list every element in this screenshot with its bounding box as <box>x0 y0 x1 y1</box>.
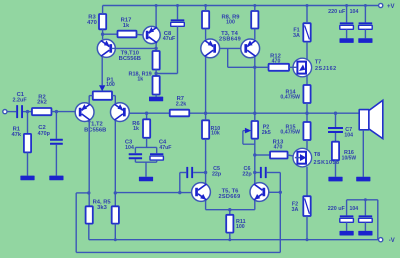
resistor R6 <box>132 119 150 138</box>
transistor T1 <box>75 103 94 122</box>
svg-text:104: 104 <box>344 133 353 139</box>
resistor R12 <box>269 53 290 70</box>
wire C2 to ground <box>55 145 57 176</box>
wire R8 to T3 emitter <box>205 29 207 40</box>
wire rail to R10 <box>205 113 207 120</box>
resistor R10 <box>202 120 220 139</box>
wire C5 to T5 collector line <box>193 172 205 174</box>
resistor R19 <box>153 76 160 95</box>
svg-text:0,47/5W: 0,47/5W <box>280 94 300 100</box>
wire C3 C4 rejoin to ground <box>135 159 156 177</box>
resistor R17 <box>118 18 137 38</box>
junction T6 base loop <box>279 191 282 194</box>
resistor R5 <box>112 206 119 223</box>
wire C8 bottom to R18 R19 junction <box>156 26 177 73</box>
junction C7 tap <box>334 112 337 115</box>
wire output rail (T2 base to speaker) <box>129 112 359 114</box>
svg-text:470: 470 <box>274 145 283 151</box>
wire R9 to T4 emitter <box>254 29 256 40</box>
capacitor C11 220uF bottom <box>328 206 354 222</box>
wire T6 emitter down <box>254 200 256 209</box>
wire C12 to ground <box>364 222 366 231</box>
wire R13 to T8 gate <box>288 154 294 157</box>
wire to R17 <box>103 33 118 35</box>
junction T3 collector output rail <box>204 112 207 115</box>
capacitor C12 104 bottom <box>349 206 372 222</box>
wire R8 top to rail <box>204 4 207 11</box>
wire down to C2 <box>55 112 57 139</box>
capacitor C8 <box>163 19 185 42</box>
capacitor C4 <box>150 139 171 160</box>
wire C6 left to T6 collector line <box>255 172 260 174</box>
wire rail to F1 <box>306 4 309 23</box>
wire rail to P2 <box>254 113 256 121</box>
wire R16 to ground <box>335 160 337 177</box>
svg-text:-V: -V <box>389 238 395 244</box>
wire +V supply rail <box>103 5 379 7</box>
ground under C12 <box>358 231 372 236</box>
resistor R15 <box>280 122 310 140</box>
junction R1 tap <box>26 110 29 113</box>
wire R6 lead <box>146 113 148 119</box>
wire to R13 <box>255 154 270 156</box>
ground under speaker <box>356 177 370 182</box>
wire emitters join <box>206 209 255 211</box>
transistor T7 mosfet <box>293 58 312 77</box>
wire R5 to -V rail <box>114 224 117 242</box>
wire base tap to R12 node <box>228 48 255 67</box>
wire R3 to T9 emitter <box>102 29 104 39</box>
label T1 T2 <box>84 122 106 134</box>
capacitor C10 104 top <box>350 9 373 29</box>
wire -V supply rail <box>89 224 379 240</box>
svg-text:104: 104 <box>349 206 358 212</box>
label R4 R5 <box>93 200 112 211</box>
resistor R9 <box>251 11 258 29</box>
svg-text:104: 104 <box>125 145 134 151</box>
wire T6 base to loop <box>269 191 281 193</box>
wire R6 to C3 C4 split <box>135 138 156 148</box>
label T8 <box>314 152 340 166</box>
wire input to C1 <box>7 111 16 113</box>
svg-text:10/5W: 10/5W <box>342 156 357 162</box>
junction T2 collector to driver wire <box>114 191 117 194</box>
wire T4 collector down <box>254 57 256 113</box>
junction R17 tap <box>101 33 104 36</box>
svg-text:3k3: 3k3 <box>97 205 107 211</box>
wire C12 top lead <box>364 198 367 215</box>
label R18 R19 <box>128 71 151 82</box>
capacitor C5 <box>186 166 222 178</box>
wire -V to bottom caps <box>347 200 378 240</box>
wire R17 to T10 base <box>137 33 144 36</box>
wire P1 right lead to T2 emitter <box>112 96 115 104</box>
wire C1 to R2 <box>23 111 32 113</box>
svg-text:100: 100 <box>236 224 245 230</box>
wire R11 to -V rail <box>228 233 231 242</box>
transistor T2 <box>111 103 130 122</box>
wire to C7 <box>335 113 337 127</box>
wire C3 branch <box>134 147 136 153</box>
wire C10 to ground <box>364 29 366 38</box>
label T9 T10 <box>119 50 141 62</box>
svg-text:22p: 22p <box>242 171 252 177</box>
svg-text:22p: 22p <box>212 171 222 177</box>
capacitor C3 <box>125 139 142 159</box>
wire C7 to R16 <box>335 133 337 142</box>
svg-text:BC556B: BC556B <box>84 127 106 133</box>
junction C5 tap <box>178 191 181 194</box>
ground under C9 <box>340 38 354 43</box>
wire R15 to T8 <box>306 140 308 149</box>
svg-text:+V: +V <box>387 4 395 10</box>
resistor R4 <box>86 206 93 223</box>
wire to R11 <box>229 210 231 215</box>
wire down to R1 <box>27 112 29 134</box>
svg-text:2k5: 2k5 <box>262 130 271 136</box>
wire T1 collector down to R4 <box>88 121 90 207</box>
ground under R16 <box>328 177 342 182</box>
transistor T6 <box>250 183 269 202</box>
node input terminal <box>3 110 7 114</box>
resistor R16 <box>332 142 357 162</box>
resistor R1 <box>11 127 31 153</box>
svg-text:3A: 3A <box>292 207 299 213</box>
svg-text:0,47/5W: 0,47/5W <box>280 129 300 135</box>
wire bottom loop to T6 base column <box>76 173 280 253</box>
svg-text:100: 100 <box>226 20 235 26</box>
svg-text:1k: 1k <box>133 126 139 132</box>
fuse F1 <box>293 23 311 41</box>
wire F1 to T7 <box>306 42 308 60</box>
junction R12 tap <box>253 66 256 69</box>
wire C11 to ground <box>346 222 348 231</box>
svg-text:2SJ162: 2SJ162 <box>315 66 337 72</box>
capacitor C9 220uF top <box>328 9 353 29</box>
ground under C10 <box>358 38 372 43</box>
wire T2 collector down to R5 <box>114 121 116 207</box>
wire P1 left lead to T1 emitter <box>89 96 93 104</box>
node -V terminal <box>379 238 395 245</box>
label T3 T4 <box>219 31 241 43</box>
svg-text:10k: 10k <box>211 131 220 137</box>
wire R3 top to rail <box>102 6 104 15</box>
transistor T3 <box>201 39 220 58</box>
wire R14 to output rail <box>306 103 308 113</box>
ground under C3 C4 <box>139 177 153 182</box>
capacitor C6 <box>242 166 266 178</box>
wire T7 source to R14 <box>306 76 308 85</box>
resistor R3 <box>87 14 106 29</box>
wire T3 base to T4 base <box>220 47 241 49</box>
resistor R8 <box>202 11 209 29</box>
label T5 T6 <box>218 188 240 199</box>
svg-text:100: 100 <box>106 82 115 88</box>
wire output rail to R15 <box>306 113 308 122</box>
svg-text:3A: 3A <box>293 33 300 39</box>
transistor T9 <box>97 39 115 57</box>
wire T2 base to R6 node <box>129 112 146 114</box>
svg-text:47k: 47k <box>11 132 21 138</box>
svg-text:1k: 1k <box>137 76 143 82</box>
wire jog to bottom loop <box>76 193 89 253</box>
wire T3 collector to output rail <box>205 57 207 113</box>
wire T10 collector to R18 <box>155 43 157 51</box>
transistor T8 mosfet <box>293 148 312 167</box>
wire speaker to ground <box>362 130 364 177</box>
capacitor C7 <box>328 127 353 139</box>
svg-text:470p: 470p <box>38 131 51 137</box>
junction T9 base tie <box>154 47 157 50</box>
svg-text:1k: 1k <box>123 23 130 29</box>
svg-text:470: 470 <box>87 20 97 26</box>
label T7 <box>315 59 337 72</box>
resistor R11 <box>226 215 245 233</box>
transistor T10 <box>143 26 160 43</box>
wire P2 to T6 collector <box>254 139 256 184</box>
potentiometer P1 <box>93 77 115 99</box>
svg-text:BC556B: BC556B <box>119 56 141 62</box>
wire C5 tap up <box>180 173 186 193</box>
resistor R2 <box>32 94 52 115</box>
wire C9 to ground <box>346 29 348 38</box>
wire R10 to T5 collector <box>205 139 207 184</box>
wire rail to C10 <box>364 4 367 22</box>
wire R9 top to rail <box>253 4 256 11</box>
junction R18 R19 C8 <box>154 72 157 75</box>
ground under C11 <box>340 231 354 236</box>
capacitor C2 <box>38 125 63 145</box>
junction R14 output <box>305 112 308 115</box>
wire C8 top to rail <box>176 4 179 19</box>
label R8 R9 <box>221 14 240 25</box>
svg-text:220 uF: 220 uF <box>328 206 346 212</box>
svg-text:470: 470 <box>272 59 281 65</box>
wire R18-R19 junction <box>155 70 157 77</box>
speaker LS1 <box>359 100 383 138</box>
wire T9 collector down to P1 arrow <box>101 56 103 86</box>
ground under R1 <box>20 176 34 181</box>
potentiometer P2 <box>243 121 271 144</box>
wire R12 lead to R12 <box>255 66 269 68</box>
wire R19 to ground <box>155 95 157 97</box>
capacitor C1 <box>13 92 28 118</box>
junction R6 tap <box>145 112 148 115</box>
wire T7 gate lead <box>293 66 297 68</box>
wire T9 base to T10 collector line <box>111 47 156 49</box>
wire R12 to T7 gate <box>289 66 293 68</box>
svg-text:2SD669: 2SD669 <box>218 194 240 200</box>
wire T8 to F2 <box>306 167 308 196</box>
svg-text:T8: T8 <box>314 152 320 158</box>
resistor R14 <box>280 85 310 103</box>
junction R13 tap <box>253 153 256 156</box>
junction T1 collector jog <box>87 191 90 194</box>
wire R1 to ground <box>27 152 29 175</box>
transistor T5 <box>192 183 211 202</box>
junction C5 collector <box>204 171 207 174</box>
svg-text:2k2: 2k2 <box>37 100 47 106</box>
wire F2 to -V rail <box>306 216 309 241</box>
junction C6 collector <box>253 171 256 174</box>
wire C4 branch <box>156 147 158 153</box>
ground under R19 <box>149 97 163 102</box>
resistor R18 <box>153 51 160 70</box>
node +V terminal <box>379 3 395 10</box>
wire R2 to T1 base <box>52 111 76 113</box>
fuse F2 <box>292 196 311 216</box>
svg-text:2.2k: 2.2k <box>176 101 187 107</box>
junction C2 tap <box>55 110 58 113</box>
ground under C2 <box>49 176 63 181</box>
svg-text:47uF: 47uF <box>163 36 176 42</box>
svg-text:104: 104 <box>350 9 359 15</box>
junction T4 collector output rail <box>253 112 256 115</box>
wire C6 right to loop <box>267 172 281 174</box>
resistor R7 <box>170 96 190 116</box>
wire T2 collector to T5 base <box>115 192 192 194</box>
transistor T4 <box>241 39 260 58</box>
svg-text:220 uF: 220 uF <box>328 9 346 15</box>
wire rail to C9 <box>345 4 348 22</box>
svg-text:2SB649: 2SB649 <box>219 37 241 43</box>
wire T10 emitter to rail <box>155 4 158 27</box>
junction emitters to R11 <box>228 208 231 211</box>
wire T5 emitter down <box>205 200 207 209</box>
resistor R13 <box>270 139 288 158</box>
svg-text:2.2uF: 2.2uF <box>13 98 28 104</box>
svg-text:47uF: 47uF <box>159 145 171 151</box>
svg-text:T7: T7 <box>315 59 321 65</box>
wire C11 top lead <box>346 200 348 216</box>
